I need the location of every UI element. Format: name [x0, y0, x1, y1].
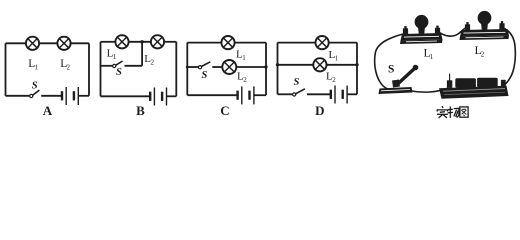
svg-text:C: C [220, 103, 229, 118]
svg-text:2: 2 [481, 51, 485, 59]
svg-text:S: S [388, 64, 394, 76]
svg-text:1: 1 [113, 53, 117, 61]
svg-text:A: A [43, 103, 53, 118]
svg-text:S: S [294, 77, 300, 88]
svg-text:1: 1 [430, 53, 434, 61]
svg-text:S: S [116, 67, 122, 78]
svg-text:2: 2 [151, 58, 155, 66]
svg-text:1: 1 [242, 54, 246, 62]
svg-text:1: 1 [335, 55, 339, 63]
svg-text:2: 2 [332, 76, 336, 84]
svg-text:S: S [32, 81, 38, 92]
svg-text:B: B [136, 103, 145, 118]
svg-text:D: D [315, 103, 324, 118]
svg-text:S: S [202, 70, 208, 81]
svg-text:1: 1 [35, 64, 39, 72]
svg-text:2: 2 [67, 64, 71, 72]
svg-text:2: 2 [243, 76, 247, 84]
